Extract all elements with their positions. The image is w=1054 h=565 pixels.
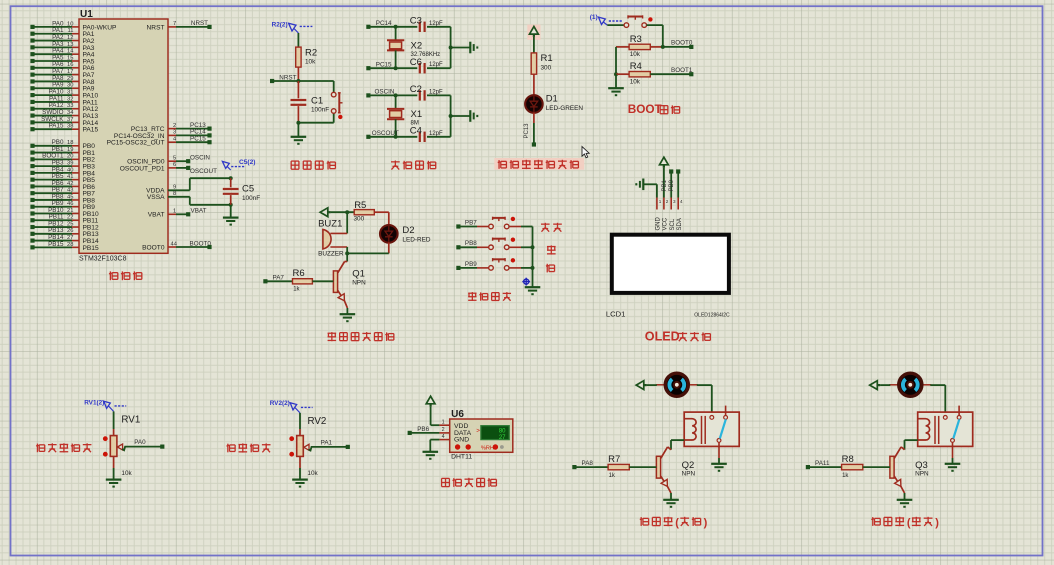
- svg-text:10k: 10k: [630, 51, 641, 58]
- svg-text:BOOT: BOOT: [628, 102, 663, 116]
- wire PC13 net below D1: [524, 113, 536, 147]
- transistor Q2 NPN: [656, 447, 695, 487]
- svg-text:C2: C2: [410, 84, 422, 95]
- svg-text:R4: R4: [630, 61, 642, 72]
- motor M-PUR: [889, 373, 931, 396]
- svg-text:PB15: PB15: [83, 245, 99, 252]
- wire PB0 to SDA: [669, 169, 680, 197]
- wire VSSA pin 8 to C5: [168, 191, 231, 205]
- svg-text:PB6: PB6: [417, 426, 429, 433]
- probe C5(2): [222, 159, 255, 170]
- ground relay switch: [945, 442, 961, 471]
- power arrow motor: [870, 381, 891, 390]
- power arrow motor: [636, 381, 657, 390]
- svg-text:Q2: Q2: [682, 460, 695, 471]
- led D2 LED-RED: [380, 212, 431, 243]
- svg-text:PB0: PB0: [669, 179, 675, 191]
- svg-text:DHT11: DHT11: [451, 454, 472, 461]
- svg-text:OSCOUT: OSCOUT: [190, 168, 217, 175]
- svg-text:R1: R1: [541, 53, 553, 64]
- svg-text:X2: X2: [411, 40, 423, 51]
- svg-text:C3: C3: [410, 16, 422, 27]
- svg-text:PA11: PA11: [815, 460, 830, 467]
- svg-text:C5: C5: [242, 184, 254, 195]
- motor M-FAN: [656, 373, 698, 396]
- buzzer BUZ1: [318, 212, 347, 257]
- svg-text:12pF: 12pF: [429, 131, 443, 137]
- svg-text:12: 12: [67, 35, 73, 41]
- svg-text:2: 2: [666, 199, 669, 204]
- svg-text:300: 300: [354, 216, 365, 223]
- node NRST wire: [270, 74, 334, 83]
- wire right bus X1 / side ground: [449, 95, 478, 136]
- svg-text:1: 1: [173, 209, 176, 215]
- wire PB1 to SCL: [662, 169, 673, 197]
- label 复位电路: [291, 161, 335, 170]
- LCD1 OLED display body: [606, 233, 731, 319]
- svg-text:44: 44: [171, 241, 178, 247]
- svg-text:OLED: OLED: [645, 329, 680, 343]
- svg-text:OSCOUT: OSCOUT: [372, 130, 399, 137]
- svg-text:OSCIN: OSCIN: [375, 89, 395, 96]
- label BOOT电路: [628, 102, 680, 116]
- capacitor C5 100nF: [223, 176, 260, 207]
- wire relay coil to Q collector: [671, 440, 684, 450]
- capacitor C1 100nF: [291, 81, 330, 123]
- svg-text:19: 19: [67, 147, 73, 153]
- svg-text:15: 15: [67, 55, 73, 61]
- wire OSCOUT pin 6: [168, 162, 217, 175]
- svg-text:RV1(2): RV1(2): [84, 400, 104, 407]
- ground of BOOT circuit: [608, 74, 624, 95]
- wire relay coil to Q collector: [905, 440, 918, 450]
- svg-text:PA0: PA0: [134, 439, 146, 446]
- svg-text:10k: 10k: [630, 78, 641, 85]
- wire Q emitter to ground: [897, 486, 913, 506]
- svg-text:BOOT1: BOOT1: [671, 67, 693, 74]
- mouse cursor: [582, 147, 589, 158]
- svg-text:29: 29: [67, 76, 73, 82]
- svg-text:PC15-OSC32_OUT: PC15-OSC32_OUT: [107, 140, 165, 147]
- svg-text:17: 17: [67, 69, 73, 75]
- svg-text:11: 11: [67, 28, 73, 34]
- wire motor to relay contact: [697, 385, 712, 415]
- wire GND pin 4 / ground: [423, 434, 450, 459]
- wire PC14 net / capacitor C3 12pF: [366, 16, 450, 32]
- key PB9 减: [456, 258, 532, 270]
- relay RL2: [918, 406, 973, 447]
- svg-text:4: 4: [680, 199, 683, 204]
- svg-text:C1: C1: [311, 96, 323, 107]
- svg-text:13: 13: [67, 42, 73, 48]
- svg-text:PC15: PC15: [190, 136, 206, 143]
- reset push button: [298, 81, 342, 123]
- ground below C5: [223, 205, 239, 225]
- svg-text:U6: U6: [451, 409, 464, 420]
- svg-text:U1: U1: [80, 9, 93, 20]
- wire PA/PB left pin nets: [30, 20, 79, 249]
- resistor R3 10k: [616, 34, 663, 58]
- svg-text:BOOT0: BOOT0: [142, 244, 165, 251]
- svg-text:1k: 1k: [842, 473, 849, 479]
- label OLED显示屏: [645, 329, 711, 343]
- svg-text:PC14: PC14: [376, 20, 392, 27]
- svg-text:14: 14: [67, 49, 74, 55]
- svg-text:VBAT: VBAT: [148, 212, 165, 219]
- svg-text:41: 41: [67, 174, 73, 180]
- wire VDDA pin 9 to C5: [168, 178, 231, 190]
- svg-text:38: 38: [67, 124, 73, 130]
- svg-text:NPN: NPN: [352, 280, 366, 287]
- label 继电器(风扇): [640, 517, 708, 529]
- resistor R6 1k: [263, 268, 333, 292]
- probe RV1(2): [84, 400, 126, 412]
- svg-text:PB9: PB9: [465, 261, 477, 268]
- svg-text:10k: 10k: [307, 470, 318, 477]
- label 继电器(净化): [871, 517, 939, 529]
- wire PC14 pin 3: [168, 129, 212, 138]
- svg-text:PB1: PB1: [662, 179, 668, 191]
- svg-text:12pF: 12pF: [429, 89, 443, 95]
- svg-text:32: 32: [67, 96, 73, 102]
- svg-text:1: 1: [659, 199, 662, 204]
- svg-text:5: 5: [173, 156, 176, 162]
- svg-text:PC15: PC15: [376, 61, 392, 68]
- svg-text:R8: R8: [842, 454, 854, 465]
- svg-text:D1: D1: [546, 94, 558, 105]
- ground relay switch: [711, 442, 727, 471]
- svg-text:2: 2: [442, 427, 445, 433]
- svg-text:GND: GND: [656, 217, 662, 231]
- svg-text:22: 22: [67, 215, 73, 221]
- svg-text:8: 8: [173, 191, 176, 197]
- power arrow alarm: [320, 208, 330, 217]
- svg-text:Q3: Q3: [915, 460, 928, 471]
- wire OSCIN pin 5: [168, 155, 210, 164]
- svg-text:OSCOUT_PD1: OSCOUT_PD1: [120, 165, 165, 172]
- resistor R5 300: [331, 200, 389, 223]
- svg-text:PB8: PB8: [465, 240, 477, 247]
- svg-text:27: 27: [67, 235, 73, 241]
- wire keys common bus: [531, 227, 535, 288]
- key PB7 设置: [456, 217, 532, 229]
- wire VBAT pin 1: [168, 208, 207, 217]
- LCD1 pin stubs: [656, 198, 684, 231]
- resistor R7 1k: [595, 454, 656, 479]
- label 烟雾值调节: [36, 443, 91, 452]
- svg-text:R2(2): R2(2): [272, 22, 288, 29]
- svg-text:VSSA: VSSA: [147, 194, 165, 201]
- wire NRST pin 7: [168, 20, 212, 29]
- wire BOOT1 net: [671, 67, 693, 76]
- svg-text:LED-RED: LED-RED: [402, 237, 430, 244]
- svg-text:C6: C6: [410, 57, 422, 68]
- op-amp U1 STM32F103C8 main chip body: [79, 9, 168, 263]
- potentiometer RV2 10k: [289, 413, 350, 487]
- resistor R1 300: [531, 37, 552, 74]
- wire VDD pin 1: [431, 419, 450, 425]
- crystal X2 32.768KHz: [387, 27, 440, 68]
- probe R2(2): [272, 22, 313, 33]
- wire PB6 DATA pin 2: [408, 426, 450, 435]
- sensor U6 DHT11 body: [450, 409, 513, 461]
- svg-text:6: 6: [173, 162, 176, 168]
- svg-text:42: 42: [67, 181, 73, 187]
- wire D2 to collector node: [347, 242, 389, 253]
- label 减: [546, 264, 555, 273]
- wire right bus X2 / side ground: [449, 27, 478, 68]
- resistor R2 10k: [296, 33, 317, 81]
- svg-text:(: (: [907, 517, 911, 529]
- svg-text:1k: 1k: [609, 473, 616, 479]
- svg-text:NRST: NRST: [191, 20, 208, 27]
- label 设置: [541, 223, 562, 232]
- svg-text:39: 39: [67, 161, 73, 167]
- svg-text:1k: 1k: [293, 286, 300, 292]
- BOOT push button: [607, 15, 663, 47]
- wire PC15 net / capacitor C6 12pF: [366, 57, 450, 73]
- wire OSCIN net / capacitor C2 12pF: [366, 84, 450, 100]
- svg-text:34: 34: [67, 110, 74, 116]
- svg-text:OSCIN: OSCIN: [190, 155, 210, 162]
- probe (1): [590, 14, 622, 25]
- wire BOOT0 net: [661, 40, 694, 49]
- svg-text:9: 9: [173, 185, 176, 191]
- svg-text:BOOT0: BOOT0: [190, 240, 212, 247]
- svg-text:10k: 10k: [305, 59, 316, 66]
- svg-text:37: 37: [67, 117, 73, 123]
- svg-text:20: 20: [67, 154, 73, 160]
- svg-text:R7: R7: [608, 454, 620, 465]
- svg-text:27: 27: [499, 435, 506, 441]
- svg-text:%RH: %RH: [481, 445, 494, 451]
- svg-text:21: 21: [67, 208, 73, 214]
- svg-text:12pF: 12pF: [429, 21, 443, 27]
- svg-text:26: 26: [67, 228, 73, 234]
- wire PC15 pin 4: [168, 136, 212, 145]
- svg-text:16: 16: [67, 62, 73, 68]
- svg-text:RV2(2): RV2(2): [270, 400, 290, 407]
- svg-text:7: 7: [173, 21, 176, 27]
- svg-text:45: 45: [67, 194, 73, 200]
- svg-text:>: >: [476, 428, 480, 435]
- svg-text:STM32F103C8: STM32F103C8: [79, 256, 127, 263]
- label 苯值调节: [226, 443, 270, 452]
- svg-text:C5(2): C5(2): [239, 159, 256, 166]
- svg-text:SDA: SDA: [677, 218, 683, 230]
- svg-text:SCL: SCL: [670, 218, 676, 230]
- ground of keys: [525, 287, 541, 294]
- svg-text:PA8: PA8: [582, 460, 594, 467]
- power arrow above R1 (highlighted): [527, 25, 540, 40]
- label 主芯片: [109, 271, 142, 280]
- svg-text:BUZ1: BUZ1: [318, 218, 342, 229]
- svg-text:GND: GND: [454, 437, 469, 444]
- svg-text:LCD1: LCD1: [606, 310, 625, 319]
- transistor Q1 NPN: [333, 247, 366, 301]
- relay RL1: [684, 406, 739, 447]
- label 加: [547, 245, 556, 254]
- svg-text:RV1: RV1: [121, 415, 140, 426]
- svg-text:OLED12864I2C: OLED12864I2C: [694, 313, 730, 319]
- svg-text:R5: R5: [354, 200, 366, 211]
- svg-text:100nF: 100nF: [311, 107, 329, 114]
- svg-text:(1): (1): [590, 14, 598, 21]
- svg-text:PA15: PA15: [83, 127, 99, 134]
- wire motor to relay contact: [930, 385, 945, 415]
- svg-text:X1: X1: [411, 109, 423, 120]
- svg-text:NRST: NRST: [279, 74, 296, 81]
- svg-text:PB15: PB15: [48, 241, 64, 248]
- svg-text:33: 33: [67, 103, 73, 109]
- svg-text:C4: C4: [410, 126, 422, 137]
- svg-text:D2: D2: [402, 225, 414, 236]
- svg-text:Q1: Q1: [352, 268, 365, 279]
- svg-text:PA1: PA1: [321, 439, 333, 446]
- potentiometer RV1 10k: [103, 411, 164, 486]
- label 程序运行指示灯 (highlighted): [494, 158, 584, 170]
- svg-text:VCC: VCC: [663, 217, 669, 230]
- origin marker: [522, 278, 530, 286]
- led D1 LED-GREEN: [525, 74, 583, 113]
- svg-text:25: 25: [67, 221, 73, 227]
- svg-text:R3: R3: [630, 34, 642, 45]
- svg-text:100nF: 100nF: [242, 195, 260, 202]
- resistor R4 10k: [614, 47, 691, 86]
- svg-text:300: 300: [541, 65, 552, 72]
- svg-text:VBAT: VBAT: [191, 208, 207, 215]
- wire BOOT0 pin 44: [168, 240, 212, 249]
- svg-text:43: 43: [67, 188, 73, 194]
- svg-text:30: 30: [67, 83, 73, 89]
- svg-text:PB7: PB7: [465, 219, 477, 226]
- svg-text:1: 1: [442, 419, 445, 425]
- svg-text:R6: R6: [293, 268, 305, 279]
- svg-text:4: 4: [442, 434, 445, 440]
- svg-text:3: 3: [673, 199, 676, 204]
- svg-text:PC13: PC13: [524, 123, 530, 139]
- svg-text:46: 46: [67, 201, 73, 207]
- label 晶振电路: [391, 160, 436, 169]
- wire PA8 net: [572, 460, 595, 469]
- power arrow DHT11: [426, 396, 435, 425]
- wire Q emitter to ground: [663, 486, 679, 506]
- svg-text:PA7: PA7: [273, 274, 285, 281]
- wire Q1 emitter to ground: [340, 301, 356, 322]
- key PB8 加: [456, 238, 532, 250]
- label 声光报警电路: [328, 332, 394, 341]
- crystal X1 8M: [387, 95, 422, 136]
- svg-text:40: 40: [67, 167, 73, 173]
- svg-text:NPN: NPN: [915, 471, 929, 478]
- svg-text:3: 3: [173, 130, 176, 136]
- side ground OLED GND: [636, 179, 657, 198]
- svg-text:28: 28: [67, 242, 73, 248]
- svg-text:2: 2: [173, 123, 176, 129]
- svg-text:RV2: RV2: [308, 416, 327, 427]
- ground of reset circuit: [291, 121, 307, 144]
- wire PC13 pin 2: [168, 122, 212, 131]
- label 温湿度模块: [442, 478, 497, 487]
- label 独立按键: [468, 292, 511, 301]
- svg-text:R2: R2: [305, 48, 317, 59]
- svg-text:12pF: 12pF: [429, 62, 443, 68]
- svg-text:): ): [935, 517, 939, 529]
- power arrow OLED VCC: [660, 157, 669, 197]
- wire OSCOUT net / capacitor C4 12pF: [366, 126, 450, 142]
- svg-text:80: 80: [499, 428, 506, 434]
- svg-text:LED-GREEN: LED-GREEN: [546, 105, 584, 112]
- svg-text:31: 31: [67, 90, 73, 96]
- svg-text:10k: 10k: [121, 470, 132, 477]
- svg-text:(: (: [675, 517, 679, 529]
- svg-text:NPN: NPN: [682, 471, 696, 478]
- svg-text:10: 10: [67, 21, 73, 27]
- svg-text:PA15: PA15: [49, 123, 64, 130]
- svg-text:NRST: NRST: [147, 24, 165, 31]
- svg-text:18: 18: [67, 140, 73, 146]
- svg-text:BOOT0: BOOT0: [671, 40, 693, 47]
- svg-text:BUZZER: BUZZER: [318, 251, 344, 258]
- resistor R8 1k: [829, 454, 890, 479]
- wire PA11 net: [806, 460, 830, 469]
- transistor Q3 NPN: [890, 447, 929, 487]
- probe RV2(2): [270, 400, 313, 413]
- svg-text:): ): [704, 517, 708, 529]
